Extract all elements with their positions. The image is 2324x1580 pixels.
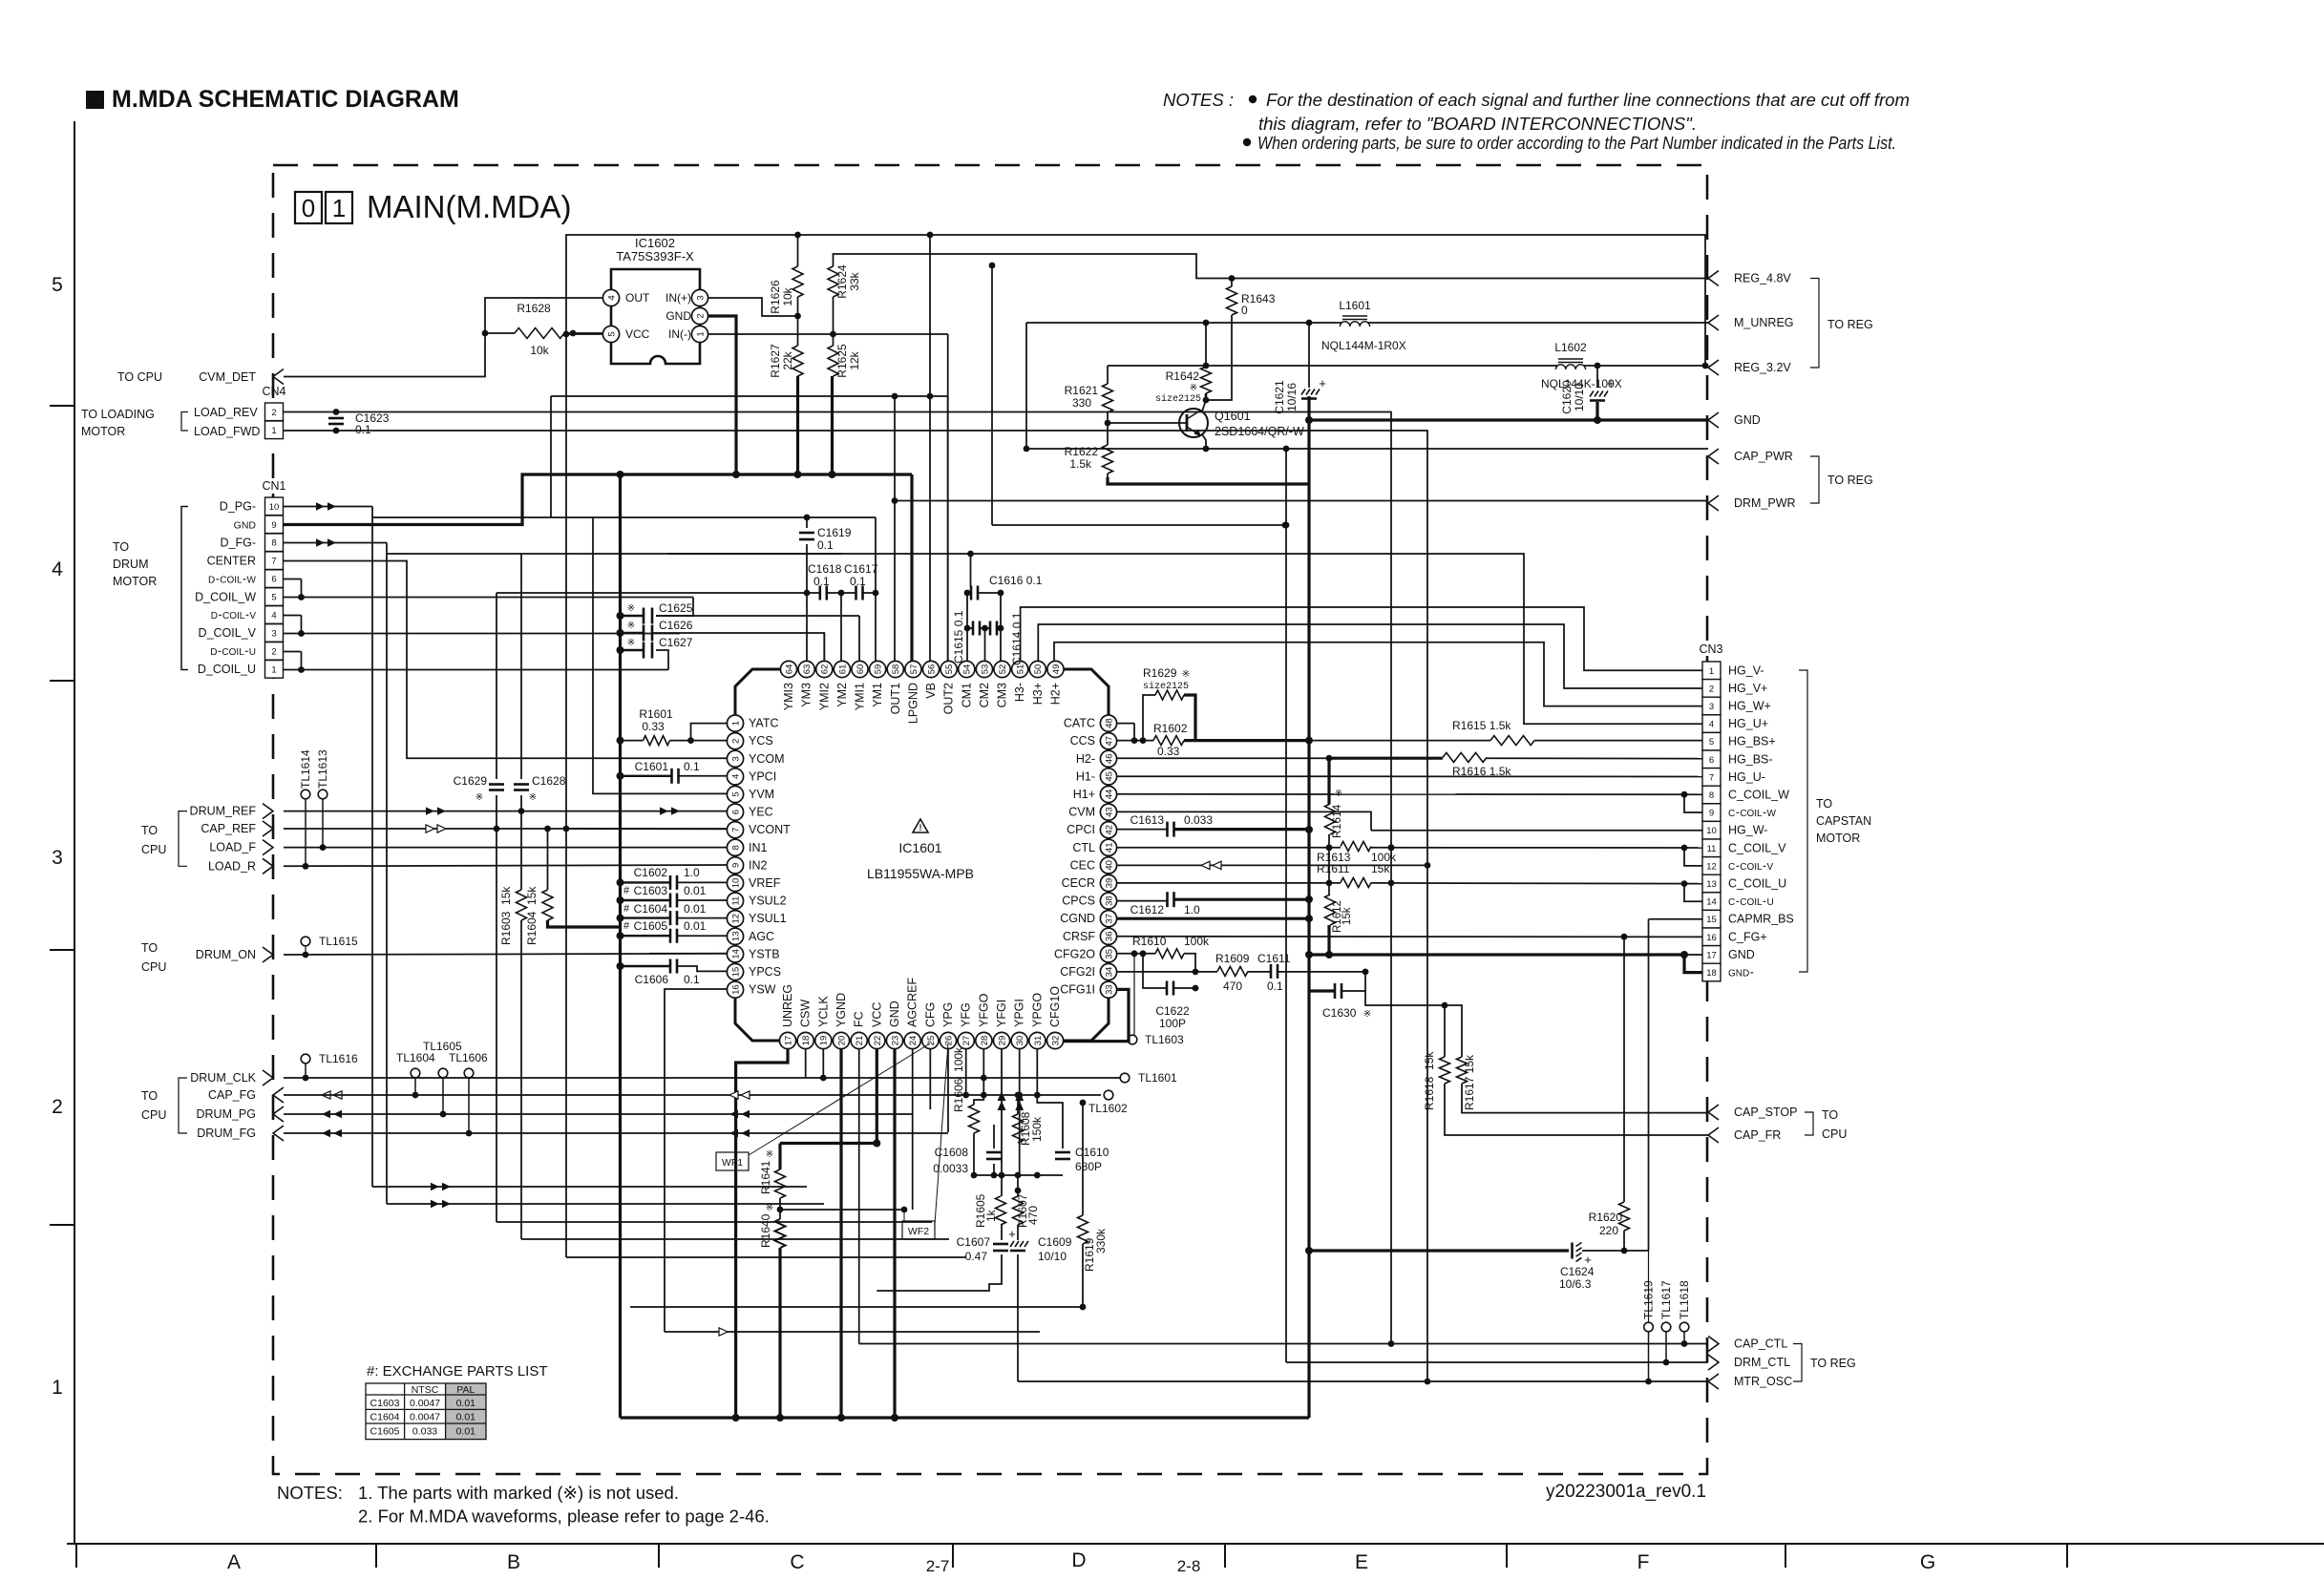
svg-text:5: 5	[52, 274, 63, 296]
svg-text:C1601: C1601	[635, 760, 669, 773]
label TO DRUM MOTOR	[113, 507, 188, 670]
svg-text:1.0: 1.0	[1184, 903, 1200, 916]
svg-text:YCOM: YCOM	[749, 752, 785, 766]
svg-text:DRUM_REF: DRUM_REF	[190, 805, 257, 818]
IC1601 pin 25 CFG	[922, 1002, 939, 1049]
svg-text:25: 25	[926, 1036, 937, 1046]
wire DRM_CTL run	[1283, 449, 1708, 1365]
resistor R1618 15k	[1423, 1051, 1450, 1110]
IC1601 pin 36 CRSF	[1063, 928, 1117, 944]
resistor R1610 100k	[1132, 935, 1210, 959]
IC1601 pin 12 YSUL1	[727, 911, 786, 927]
wire CPCS C1612 row	[1117, 899, 1309, 900]
svg-text:#: #	[623, 903, 630, 915]
svg-text:7: 7	[271, 557, 276, 567]
svg-text:※: ※	[627, 603, 635, 614]
svg-text:6: 6	[271, 575, 276, 585]
svg-text:0.33: 0.33	[642, 720, 665, 733]
resistor R1609 470	[1215, 952, 1250, 993]
wire CAP_FG run	[284, 1091, 1101, 1099]
svg-text:A: A	[227, 1551, 241, 1573]
capacitor C1618 0.1	[808, 562, 842, 600]
svg-text:YPCS: YPCS	[749, 965, 781, 979]
svg-text:11: 11	[730, 896, 741, 906]
wire R1601 row pin2	[617, 737, 728, 745]
svg-text:MAIN(M.MDA): MAIN(M.MDA)	[367, 189, 571, 224]
wire nest to CN3 pin4	[971, 554, 1703, 724]
wire C1616 net	[668, 551, 1004, 597]
IC1601 pin 5 YVM	[727, 786, 774, 802]
svg-text:16: 16	[1706, 933, 1717, 943]
IC1601 pin 3 YCOM	[727, 750, 784, 767]
svg-text:R1618 15k: R1618 15k	[1423, 1051, 1436, 1110]
svg-text:C1609: C1609	[1038, 1235, 1072, 1249]
svg-text:33k: 33k	[848, 271, 861, 290]
svg-text:OUT: OUT	[625, 291, 650, 305]
svg-text:※: ※	[627, 638, 635, 648]
svg-text:10: 10	[269, 502, 280, 513]
svg-text:C1616 0.1: C1616 0.1	[989, 574, 1043, 587]
svg-text:46: 46	[1104, 754, 1114, 765]
wire R1626 top to rail	[797, 235, 799, 266]
svg-text:2: 2	[271, 646, 276, 657]
svg-text:3: 3	[1709, 702, 1714, 712]
svg-text:24: 24	[908, 1036, 919, 1046]
svg-text:HG_W+: HG_W+	[1728, 700, 1771, 713]
wire CAPMR_BS row	[1649, 918, 1703, 920]
svg-text:C_COIL_V: C_COIL_V	[1728, 841, 1786, 854]
wire C1607 C1609 bottoms	[877, 1254, 1018, 1381]
wire DRM_PWR rail	[892, 497, 1708, 504]
svg-text:#: #	[623, 920, 630, 932]
svg-text:0.033: 0.033	[412, 1425, 437, 1437]
capacitor C1612 1.0	[1130, 892, 1200, 916]
svg-text:LOAD_F: LOAD_F	[209, 841, 256, 854]
svg-text:40: 40	[1104, 860, 1114, 871]
wire C1618 row	[496, 590, 876, 661]
wire pin60 YMI1 feed	[656, 616, 859, 661]
svg-text:MOTOR: MOTOR	[113, 575, 157, 588]
svg-text:22: 22	[873, 1036, 883, 1046]
IC1601 pin 55 OUT2	[940, 661, 957, 714]
svg-text:YATC: YATC	[749, 717, 778, 730]
svg-text:0.01: 0.01	[684, 919, 707, 933]
IC1601 pin 27 YFG	[958, 1002, 974, 1048]
svg-text:57: 57	[909, 664, 919, 675]
IC1601 pin 9 IN2	[727, 857, 767, 874]
signal M_UNREG	[1708, 315, 1794, 330]
svg-text:D⁃COIL⁃U: D⁃COIL⁃U	[210, 647, 256, 658]
IC1601 pin 15 YPCS	[727, 963, 781, 980]
capacitor C1608 0.0033	[933, 1146, 1002, 1175]
svg-text:R1603 15k: R1603 15k	[499, 886, 513, 945]
svg-text:R1642: R1642	[1166, 369, 1200, 383]
svg-text:C1614 0.1: C1614 0.1	[1010, 612, 1024, 665]
test point TL1601	[1120, 1071, 1177, 1085]
svg-text:4: 4	[271, 611, 276, 621]
resistor R1615 1.5k	[1452, 719, 1534, 746]
signal DRM_CTL	[1708, 1355, 1790, 1370]
svg-text:CPU: CPU	[141, 843, 166, 856]
wire pin49 H2+ thick corner	[1064, 668, 1109, 670]
wire lower run6 R1619	[630, 1306, 1083, 1308]
svg-text:12k: 12k	[848, 350, 861, 369]
svg-text:1: 1	[1709, 666, 1714, 677]
wire TL1619 stem	[1648, 1332, 1650, 1381]
svg-text:CAP_CTL: CAP_CTL	[1734, 1338, 1787, 1351]
transistor Q1601 2SD1664	[1179, 409, 1304, 438]
capacitor C1626 not used	[627, 619, 693, 642]
label TO REG lower	[1793, 1344, 1856, 1382]
wire CVM_DET run	[284, 298, 603, 377]
svg-text:9: 9	[271, 520, 276, 531]
test point TL1619	[1642, 1280, 1656, 1332]
svg-text:R1626: R1626	[769, 280, 782, 314]
wire C1602 row pin10	[617, 878, 728, 886]
svg-text:HG_BS-: HG_BS-	[1728, 752, 1773, 766]
IC1601 pin 41 CTL	[1072, 839, 1116, 855]
wire pin62 YMI2 feed	[823, 633, 825, 661]
svg-text:R1621: R1621	[1065, 384, 1099, 397]
wire CPCI C1613 row	[1117, 829, 1309, 831]
svg-text:C_FG+: C_FG+	[1728, 930, 1767, 943]
svg-text:VB: VB	[924, 683, 938, 699]
svg-text:15: 15	[730, 967, 741, 978]
wire HG_W- row	[1371, 830, 1702, 832]
resistor R1629 size2125 not used	[1143, 666, 1190, 700]
svg-text:2-8: 2-8	[1177, 1557, 1201, 1575]
wire D_COIL_U run	[284, 650, 669, 673]
svg-text:C1620: C1620	[1560, 380, 1574, 414]
IC1601 pin 11 YSUL2	[727, 893, 786, 909]
capacitor C1605 0.01	[623, 919, 707, 943]
svg-text:0.1: 0.1	[355, 423, 371, 436]
svg-text:C1610: C1610	[1075, 1146, 1109, 1159]
svg-text:52: 52	[998, 664, 1008, 675]
CN3 pin labels	[1728, 664, 1794, 979]
svg-text:L1601: L1601	[1339, 299, 1371, 312]
IC1601 pin 19 YCLK	[815, 996, 832, 1049]
resistor R1627 22k	[769, 344, 803, 378]
svg-text:6: 6	[1709, 755, 1714, 766]
svg-text:C_COIL_W: C_COIL_W	[1728, 789, 1789, 802]
wire R1604 drop	[548, 829, 621, 927]
IC1601 pin 45 H1-	[1076, 769, 1117, 785]
svg-text:CM3: CM3	[996, 683, 1009, 707]
wire H1- row to CN3 pin7	[1117, 775, 1702, 777]
wire TL1605 stem	[442, 1078, 444, 1114]
resistor R1625 12k	[828, 344, 861, 378]
svg-text:#: EXCHANGE PARTS LIST: #: EXCHANGE PARTS LIST	[367, 1363, 548, 1380]
svg-text:55: 55	[944, 664, 955, 675]
wire OUT rail y415	[551, 393, 948, 517]
svg-text:R1611: R1611	[1317, 862, 1350, 875]
wire pin22 VCC thick	[873, 1049, 880, 1148]
svg-text:C1625: C1625	[659, 601, 693, 615]
svg-text:YGND: YGND	[835, 993, 848, 1027]
wire R1614 drop	[1327, 758, 1330, 846]
capacitor C1623 0.1	[328, 409, 390, 436]
svg-text:YVM: YVM	[749, 788, 774, 801]
svg-text:8: 8	[1709, 790, 1714, 801]
wire OUT2 pin55 vertical	[947, 396, 949, 661]
svg-text:5: 5	[606, 331, 617, 336]
inductor L1602 NQL144K-100X	[1541, 341, 1622, 390]
svg-text:0.01: 0.01	[456, 1425, 476, 1437]
wire DRUM_CLK run	[284, 1075, 806, 1082]
wire Q1601 collector to CAP_PWR	[1024, 434, 1708, 452]
wire VM rail y550	[989, 263, 1289, 529]
wire pin5 YVM	[593, 517, 727, 793]
svg-text:YMI2: YMI2	[817, 683, 831, 710]
svg-text:2: 2	[730, 739, 741, 744]
svg-text:47: 47	[1104, 736, 1114, 747]
wire D_FG- run	[284, 538, 842, 554]
svg-text:D_COIL_V: D_COIL_V	[199, 626, 257, 640]
svg-text:42: 42	[1104, 825, 1114, 835]
signal CAP_STOP	[1708, 1105, 1797, 1120]
svg-text:CATC: CATC	[1064, 717, 1095, 730]
svg-text:GND⁃: GND⁃	[1728, 969, 1754, 980]
svg-text:CFG2O: CFG2O	[1054, 947, 1095, 960]
svg-text:REG_3.2V: REG_3.2V	[1734, 361, 1791, 374]
svg-text:8: 8	[271, 538, 276, 549]
svg-text:※: ※	[1190, 383, 1197, 393]
svg-text:IN(-): IN(-)	[668, 327, 691, 341]
wire CECR R1611 row to CN3 pin13	[1117, 844, 1702, 901]
capacitor C1609 10/10 electrolytic	[1008, 1227, 1071, 1263]
wire H1+ row to CN3 pin8	[1117, 791, 1702, 812]
wire LOAD_FWD	[284, 431, 1428, 1381]
wire H2- R1616 row	[1117, 755, 1702, 762]
svg-text:41: 41	[1104, 843, 1114, 853]
svg-text:H3-: H3-	[1013, 683, 1026, 702]
svg-text:C_COIL_U: C_COIL_U	[1728, 877, 1786, 891]
wire C1625 bus stubs	[617, 612, 681, 654]
svg-text:LOAD_R: LOAD_R	[208, 859, 256, 873]
wire LOAD_F run	[284, 844, 727, 851]
svg-text:10/6.3: 10/6.3	[1559, 1277, 1592, 1291]
wire lower run1	[372, 517, 807, 1190]
resistor R1612 15k	[1325, 895, 1354, 933]
svg-text:470: 470	[1223, 980, 1242, 993]
svg-text:TL1601: TL1601	[1138, 1071, 1177, 1085]
wire pin50 H3+ nest	[1038, 624, 1702, 688]
svg-text:NOTES:: NOTES:	[277, 1483, 343, 1503]
svg-text:C1604: C1604	[634, 902, 668, 916]
svg-text:49: 49	[1051, 664, 1062, 675]
svg-text:21: 21	[855, 1036, 865, 1046]
IC1601 pin 44 H1+	[1073, 786, 1117, 802]
IC1601 pin 52 CM3	[994, 661, 1010, 707]
IC1601 pin 1 YATC	[727, 715, 778, 731]
resistor R1616 1.5k	[1443, 752, 1511, 778]
svg-text:YFGO: YFGO	[977, 993, 990, 1027]
capacitor C1602 1.0	[634, 866, 700, 890]
wire C1617 right vert	[873, 517, 879, 661]
svg-text:L1602: L1602	[1554, 341, 1587, 354]
capacitor C1624 10/6.3 electrolytic	[1559, 1243, 1595, 1292]
wire CAP_CTL run	[859, 1340, 1708, 1347]
svg-text:0.01: 0.01	[684, 902, 707, 916]
svg-text:15k: 15k	[1371, 862, 1390, 875]
svg-text:10/10: 10/10	[1573, 383, 1586, 411]
svg-text:5: 5	[730, 791, 741, 796]
signal MTR_OSC	[1708, 1374, 1792, 1389]
svg-text:G: G	[1920, 1551, 1935, 1573]
capacitor C1630 not used	[1322, 983, 1371, 1020]
svg-text:C1612: C1612	[1130, 903, 1165, 916]
svg-text:10k: 10k	[530, 344, 549, 357]
IC1601 pin 53 CM2	[976, 661, 992, 707]
svg-text:15k: 15k	[1342, 907, 1353, 925]
svg-text:C1607: C1607	[957, 1235, 991, 1249]
svg-text:OUT2: OUT2	[942, 683, 956, 714]
label TO REG mid	[1810, 456, 1873, 503]
svg-text:IC1601: IC1601	[898, 840, 941, 855]
wire lower run4	[521, 1238, 949, 1240]
svg-text:12: 12	[1706, 861, 1717, 872]
wire M_UNREG rail	[1026, 320, 1708, 449]
IC1602 pin 4	[602, 289, 619, 305]
wire pin7 VCONT	[566, 828, 727, 830]
IC1601 pin 51 H3-	[1012, 661, 1028, 702]
wire C1622 branch	[1143, 954, 1198, 992]
wire R1624 top to REG_4.8V	[834, 254, 1709, 282]
svg-text:IN2: IN2	[749, 858, 768, 872]
svg-text:C1606: C1606	[635, 973, 669, 986]
wire thick C1624 branch	[1309, 1248, 1649, 1254]
wire C1630 link	[1309, 972, 1462, 1057]
svg-text:62: 62	[820, 664, 831, 675]
svg-text:D_PG-: D_PG-	[220, 500, 256, 514]
wire TL1616 stem	[305, 1064, 306, 1078]
svg-text:CEC: CEC	[1070, 858, 1095, 872]
svg-text:330k: 330k	[1094, 1228, 1108, 1253]
svg-text:C1615 0.1: C1615 0.1	[952, 610, 965, 664]
svg-text:HG_U-: HG_U-	[1728, 770, 1765, 784]
svg-text:CVM_DET: CVM_DET	[199, 370, 256, 384]
svg-text:0.33: 0.33	[1157, 745, 1180, 758]
IC1601 pin 26 YPG	[940, 1002, 956, 1049]
svg-text:C1617: C1617	[844, 562, 878, 576]
svg-text:C1622: C1622	[1155, 1004, 1190, 1018]
wire MTR_OSC run	[1018, 1379, 1708, 1385]
svg-text:R1640: R1640	[759, 1213, 772, 1248]
svg-text:TL1616: TL1616	[319, 1052, 358, 1065]
svg-text:C1613: C1613	[1130, 813, 1165, 827]
signal DRUM_ON	[141, 941, 273, 974]
svg-text:CM2: CM2	[978, 683, 991, 707]
svg-text:C1603: C1603	[634, 884, 668, 897]
left ruler line	[50, 121, 74, 1544]
svg-text:63: 63	[802, 664, 813, 675]
test point TL1615	[301, 935, 358, 948]
svg-text:61: 61	[837, 664, 848, 675]
svg-text:8: 8	[730, 845, 741, 850]
svg-text:R1609: R1609	[1215, 952, 1250, 965]
wire C1604 row pin12	[617, 915, 728, 922]
capacitor C1614 0.1	[990, 612, 1024, 665]
svg-text:C1629: C1629	[454, 774, 488, 788]
test point TL1605	[423, 1040, 462, 1078]
resistor R1643 0	[1227, 286, 1276, 317]
resistor R1613 100k	[1317, 842, 1397, 865]
signal DRM_PWR	[1708, 495, 1796, 511]
svg-text:CPU: CPU	[141, 1108, 166, 1122]
resistor R1617 15k	[1457, 1054, 1477, 1110]
svg-text:C1628: C1628	[532, 774, 566, 788]
svg-text:YSW: YSW	[749, 983, 776, 997]
svg-text:MTR_OSC: MTR_OSC	[1734, 1375, 1792, 1388]
IC1601 pin 29 YFGI	[993, 1000, 1009, 1049]
svg-text:CFG: CFG	[923, 1002, 937, 1027]
svg-text:1: 1	[695, 331, 706, 336]
wire R1643 to M_UNREG rail	[1206, 279, 1232, 401]
test point TL1604	[396, 1051, 435, 1078]
svg-text:TL1613: TL1613	[316, 749, 329, 789]
svg-text:TL1618: TL1618	[1678, 1280, 1691, 1319]
wire CATC pin48 stub	[1117, 724, 1138, 744]
resistor R1641 not used	[759, 1149, 786, 1198]
svg-text:4: 4	[606, 295, 617, 300]
svg-text:UNREG: UNREG	[781, 984, 794, 1027]
capacitor C1601 0.1	[635, 760, 700, 784]
svg-text:CPCI: CPCI	[1067, 823, 1095, 836]
wire lower run7 open arrow	[665, 1328, 1040, 1336]
svg-text:C1603: C1603	[370, 1398, 400, 1409]
capacitor C1613 0.033	[1130, 813, 1214, 837]
wire CAP_REF run	[284, 825, 727, 832]
svg-text:IC1602: IC1602	[635, 236, 675, 250]
capacitor C1604 0.01	[623, 902, 707, 925]
svg-text:0.1: 0.1	[684, 973, 700, 986]
svg-text:C1630: C1630	[1322, 1006, 1357, 1020]
board name 01 MAIN(M.MDA)	[295, 189, 571, 224]
svg-text:YPCI: YPCI	[749, 769, 776, 783]
wire GND bus from CN1 pin9	[284, 471, 913, 525]
svg-text:54: 54	[962, 664, 973, 675]
svg-text:470: 470	[1026, 1206, 1040, 1225]
IC1601 pin 37 CGND	[1060, 911, 1116, 927]
svg-text:17: 17	[1706, 950, 1717, 960]
svg-text:D⁃COIL⁃W: D⁃COIL⁃W	[208, 575, 257, 585]
svg-text:GND: GND	[1728, 948, 1755, 961]
svg-text:150k: 150k	[1030, 1116, 1044, 1142]
wire CTL R1613 row to CN3 pin11	[1117, 844, 1702, 866]
svg-text:YSUL1: YSUL1	[749, 912, 787, 925]
bottom ruler line	[67, 1544, 2324, 1575]
svg-text:+: +	[1607, 376, 1615, 390]
wire CENTER run	[284, 561, 728, 759]
comparator IC1602 TA75S393F-X	[611, 236, 700, 364]
svg-text:680P: 680P	[1075, 1160, 1102, 1173]
notes header	[1163, 90, 1910, 153]
resistor R1621 330	[1065, 384, 1113, 412]
svg-text:17: 17	[783, 1036, 793, 1046]
svg-text:DRUM_FG: DRUM_FG	[197, 1127, 256, 1140]
capacitor C1620 10/10 electrolytic	[1560, 376, 1615, 414]
svg-text:64: 64	[784, 664, 794, 675]
svg-text:53: 53	[980, 664, 990, 675]
svg-text:20: 20	[836, 1036, 847, 1046]
svg-text:※: ※	[1182, 669, 1190, 680]
svg-text:2: 2	[52, 1096, 63, 1118]
svg-text:29: 29	[997, 1036, 1007, 1046]
svg-text:TO CPU: TO CPU	[117, 370, 162, 384]
svg-text:D⁃COIL⁃V: D⁃COIL⁃V	[211, 611, 257, 621]
resistor R1640 not used	[759, 1203, 786, 1248]
